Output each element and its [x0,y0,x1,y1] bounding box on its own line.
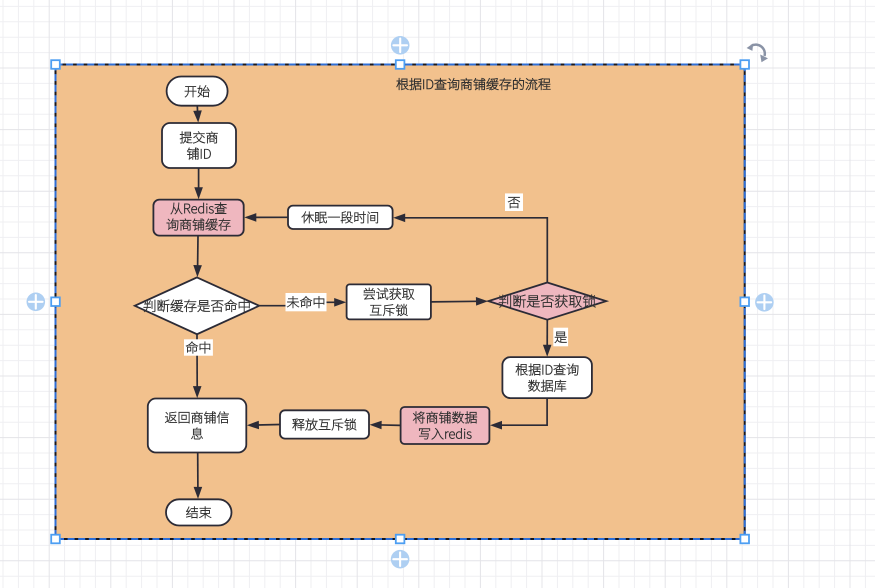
rotation handle (curved arrow) [747,43,768,62]
arrow: write-redis->release-lock [370,421,401,430]
arrow: db-query->write-redis [490,398,547,429]
node: 将商铺数据写入redis [401,407,490,444]
arrow: start->submit [193,106,202,122]
directional handles (light blue circles with cross) [391,36,410,55]
arrow: try-lock->lock-check [431,297,488,306]
node: 判断缓存是否命中 [135,277,259,334]
edge label: 未命中 [286,293,327,311]
arrow: sleep->redis-query [244,213,287,222]
node: 释放互斥锁 [280,410,369,438]
arrow: return->end [194,453,203,499]
node: 根据ID查询数据库 [502,357,592,398]
arrow: submit->redis-query [194,168,203,199]
node: 判断是否获取锁 [488,283,606,320]
node: 结束 (end terminator) [166,499,232,525]
selection resize handles (8 white squares) [51,60,749,543]
selected orange container rectangle [56,65,745,540]
edge label: 是 [553,328,568,347]
node: 开始 (start terminator) [167,77,228,106]
arrow: hit-check->return (hit) [193,334,202,398]
arrow: hit-check->try-lock (miss) [259,298,346,307]
arrow: lock-check->sleep (no) [393,214,547,283]
diagram title: 根据ID查询商铺缓存的流程 [397,78,551,90]
node: 提交商铺ID [162,123,236,168]
node: 休眠一段时间 [288,206,393,229]
node: 尝试获取互斥锁 [347,284,431,319]
arrow: release-lock->return [247,421,280,430]
edge label: 否 [505,193,523,211]
edge label: 命中 [184,339,213,355]
node: 返回商铺信息 [148,399,247,453]
arrow: redis-query->hit-check [193,236,202,277]
node: 从Redis查询商铺缓存 [153,200,243,236]
arrow: lock-check->db-query (yes) [543,320,552,357]
